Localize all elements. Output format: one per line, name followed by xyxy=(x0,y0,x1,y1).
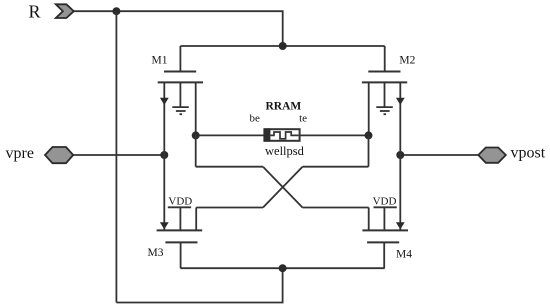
svg-text:M2: M2 xyxy=(399,55,415,67)
wire: RRAM right lead xyxy=(300,134,369,136)
wire: bottom rail then up to bottom gate rail xyxy=(116,268,282,302)
svg-text:RRAM: RRAM xyxy=(266,101,302,113)
wire: top gate rail connecting M1 and M2 gates xyxy=(180,45,384,47)
wire: vpost lead xyxy=(400,154,478,156)
node: junction dot on top gate rail xyxy=(279,42,287,50)
svg-text:R: R xyxy=(29,2,41,22)
power rail bar VDD for M4 xyxy=(374,206,397,208)
wire: RRAM left lead xyxy=(196,134,265,136)
svg-text:te: te xyxy=(299,113,307,125)
pin vpre (hexagon) xyxy=(45,147,73,163)
svg-text:VDD: VDD xyxy=(373,195,397,207)
svg-text:M3: M3 xyxy=(148,247,164,259)
wire: cross-coupling right vertical from RRAM-right node xyxy=(368,135,370,166)
svg-text:M1: M1 xyxy=(152,55,168,67)
node: junction dot on top rail xyxy=(112,7,120,15)
svg-text:M4: M4 xyxy=(396,249,412,261)
transistor M1 xyxy=(158,46,203,155)
ground symbol under M2 bulk xyxy=(376,107,393,114)
node: junction dot on vpost column xyxy=(396,151,404,159)
power rail bar VDD for M3 xyxy=(168,206,191,208)
wire: cross-coupling left vertical from RRAM-left node xyxy=(195,135,197,166)
wire: cross-coupling diagonal top-right to bottom-left xyxy=(263,167,303,208)
wire: cross-coupling bottom-left horizontal to M3 drain xyxy=(196,207,263,209)
transistor M2 xyxy=(362,46,407,155)
svg-text:VDD: VDD xyxy=(168,195,192,207)
wire: cross-coupling top-left horizontal xyxy=(196,166,263,168)
transistor M4 xyxy=(362,155,408,268)
wire: left vertical drop from R junction down to bottom rail xyxy=(115,11,117,302)
memristor RRAM xyxy=(264,128,300,141)
node: junction dot on vpre column xyxy=(160,151,168,159)
node: junction dot at RRAM left lead xyxy=(192,131,200,139)
wire: vpre lead xyxy=(73,154,164,156)
node: junction dot at RRAM right lead xyxy=(365,131,373,139)
wire: cross-coupling top-right horizontal xyxy=(303,166,369,168)
pin R (input chevron) xyxy=(56,4,74,18)
svg-text:vpre: vpre xyxy=(6,145,34,162)
pin vpost (hexagon) xyxy=(478,148,506,163)
ground symbol under M1 bulk xyxy=(172,107,189,114)
wire: cross-coupling bottom-right horizontal to M4 drain xyxy=(303,207,369,209)
wire: top rail from R pin right then down toward gate rail xyxy=(74,11,283,46)
wire: cross-coupling diagonal top-left to bottom-right xyxy=(263,167,303,208)
svg-text:be: be xyxy=(250,113,261,125)
transistor M3 xyxy=(157,155,203,268)
wire: bottom gate rail connecting M3 and M4 gates xyxy=(180,267,384,269)
svg-text:wellpsd: wellpsd xyxy=(265,144,305,158)
node: junction dot on bottom gate rail xyxy=(279,264,287,272)
svg-text:vpost: vpost xyxy=(511,144,546,161)
